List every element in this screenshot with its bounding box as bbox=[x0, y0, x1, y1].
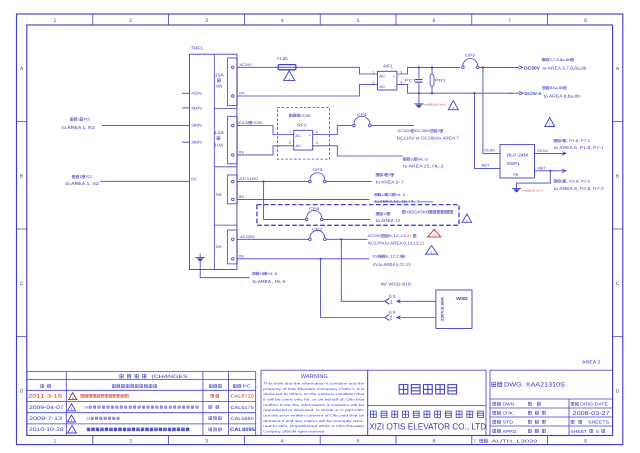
node PR1 top bbox=[431, 66, 433, 68]
wire DC0V rail bbox=[419, 92, 520, 94]
svg-text:DC110V: DC110V bbox=[237, 121, 249, 125]
svg-text:to AREA 1, S2: to AREA 1, S2 bbox=[65, 181, 99, 186]
svg-text:CP5: CP5 bbox=[465, 54, 475, 58]
svg-text:CP3: CP3 bbox=[312, 168, 322, 172]
svg-text:E3: E3 bbox=[389, 294, 396, 298]
warning box bbox=[261, 370, 368, 435]
svg-text:, P2-8, P7-2: , P2-8, P7-2 bbox=[567, 179, 590, 183]
connector CP2 bbox=[309, 238, 312, 241]
terminal DC110V/DC28V bbox=[232, 124, 235, 127]
warning triangle 4 bbox=[426, 246, 438, 255]
node DC30V tap (red) bbox=[482, 66, 484, 68]
svg-text:8: 8 bbox=[584, 18, 587, 24]
svg-text:21: 21 bbox=[420, 241, 425, 246]
svg-text:DWG. XAA21310S: DWG. XAA21310S bbox=[504, 382, 565, 389]
svg-text:7: 7 bbox=[389, 173, 391, 177]
wire after CP2 bbox=[326, 238, 367, 240]
svg-text:2: 2 bbox=[373, 80, 375, 84]
wire RF2 pin4 out bbox=[313, 146, 403, 156]
svg-text:1: 1 bbox=[54, 18, 57, 24]
svg-text:DWN.: DWN. bbox=[503, 402, 516, 407]
transformer chassis ground bbox=[199, 253, 201, 257]
changes row4 name 朱建根 bbox=[209, 428, 222, 431]
changes table title 更改记录 CHANGES bbox=[120, 374, 146, 378]
svg-text:1: 1 bbox=[390, 299, 393, 305]
svg-text:2010-10-28: 2010-10-28 bbox=[29, 427, 64, 433]
device WSD box bbox=[436, 290, 472, 329]
svg-text:to AREA 12, 15, HL-3: to AREA 12, 15, HL-3 bbox=[375, 200, 419, 204]
svg-text:3: 3 bbox=[205, 18, 208, 24]
label 电源12、15线 HL-3 bbox=[375, 193, 381, 196]
dwg row 日期 ORIG.DATE bbox=[571, 402, 578, 405]
svg-text:DC110V or DC28V,to AREA 7: DC110V or DC28V,to AREA 7 bbox=[397, 135, 460, 140]
svg-text:F1,8A: F1,8A bbox=[277, 56, 288, 61]
wire DC30V rail after CP5 bbox=[479, 66, 519, 68]
svg-text:7: 7 bbox=[473, 439, 476, 444]
svg-text:to AREA 6, P2-8, P7-2: to AREA 6, P2-8, P7-2 bbox=[554, 186, 605, 191]
terminal AC110V bbox=[232, 180, 235, 183]
svg-text:to AREA 6, P1-8, P7-1: to AREA 6, P1-8, P7-1 bbox=[554, 145, 605, 150]
connector CP5 bbox=[462, 66, 465, 69]
svg-text:E3: E3 bbox=[389, 311, 396, 315]
svg-text:2: 2 bbox=[390, 316, 393, 322]
secondary winding box W2 bbox=[228, 116, 238, 164]
svg-text:WARNING: WARNING bbox=[301, 374, 328, 380]
svg-text:to AREA 1, R2: to AREA 1, R2 bbox=[62, 125, 95, 130]
warning triangle above SWP1 bbox=[545, 118, 555, 127]
node PC1 top bbox=[418, 66, 420, 68]
label 电源8,8a,8b线 bbox=[543, 86, 549, 89]
wire WSD to E3-2 bbox=[400, 317, 436, 319]
transformer TRF1 body bbox=[190, 54, 237, 269]
wire DC110V to RF2 pin1 bbox=[237, 126, 294, 135]
terminal 0V W3 bbox=[232, 198, 235, 201]
svg-text:15: 15 bbox=[260, 272, 264, 276]
svg-text:0V: 0V bbox=[239, 92, 245, 96]
svg-text:6: 6 bbox=[433, 18, 436, 24]
label 仅用于DC28V bbox=[289, 114, 299, 117]
svg-text:CAL5175: CAL5175 bbox=[231, 405, 255, 410]
svg-text:8,8a,8b: 8,8a,8b bbox=[550, 86, 564, 90]
connector CP3 bbox=[309, 180, 312, 183]
svg-text:APPD.: APPD. bbox=[503, 429, 518, 434]
terminal AC220V bbox=[232, 238, 235, 241]
dashed box XRDS/AT400 bbox=[257, 205, 459, 226]
label 电源6线, P1-8, P7-1 bbox=[554, 139, 560, 142]
svg-text:delivered to others on the exp: delivered to others on the express condi… bbox=[263, 392, 364, 396]
primary tap stub 400V bbox=[182, 107, 190, 109]
svg-text:1: 1 bbox=[80, 175, 82, 179]
terminal 0V W1 bbox=[232, 95, 235, 98]
svg-text:2009-04-07: 2009-04-07 bbox=[29, 405, 64, 411]
node PC1 bottom bbox=[418, 92, 420, 94]
svg-text:220V,0.66A: 220V,0.66A bbox=[441, 297, 445, 321]
svg-text:RET: RET bbox=[482, 164, 490, 168]
title box bbox=[368, 370, 486, 435]
svg-text:C: C bbox=[616, 281, 620, 287]
changes header 更改PC bbox=[233, 385, 241, 388]
svg-text:4: 4 bbox=[281, 439, 284, 445]
wire after CP8 bbox=[323, 218, 370, 220]
label 电源15线 HL-5 bbox=[253, 272, 259, 275]
svg-text:AC: AC bbox=[296, 144, 302, 148]
svg-text:5: 5 bbox=[357, 18, 360, 24]
svg-text:3,7,8,8a,8b: 3,7,8,8a,8b bbox=[549, 58, 570, 62]
fuse F1 8A bbox=[278, 65, 296, 70]
changes row1 name 张日 bbox=[211, 394, 219, 397]
wire AC110V to CP3 bbox=[237, 181, 308, 183]
wire S2 to 0V tap bbox=[100, 180, 189, 182]
svg-text:to AREA 12: to AREA 12 bbox=[376, 218, 401, 223]
wire WSD to E3-1 bbox=[400, 300, 436, 302]
wire 0V W4 out bbox=[237, 258, 369, 260]
svg-text:to AREA 15, HL-3: to AREA 15, HL-3 bbox=[403, 164, 444, 169]
warning triangle XRDS bbox=[462, 214, 471, 222]
dashed box 仅用于DC28V bbox=[278, 108, 330, 160]
svg-text:TRF1: TRF1 bbox=[191, 45, 204, 50]
svg-text:STD.: STD. bbox=[503, 420, 515, 425]
svg-text:CP8: CP8 bbox=[309, 207, 319, 211]
wire transformer ground to HL-5 bbox=[200, 262, 249, 278]
svg-text:12: 12 bbox=[382, 193, 386, 197]
svg-text:(CHANGES: (CHANGES bbox=[152, 374, 188, 380]
svg-text:6: 6 bbox=[433, 439, 436, 445]
wire RF1 pin3 to DC30V rail bbox=[397, 67, 460, 74]
dwg row 校对 CHK. 曹晓东 bbox=[493, 411, 501, 414]
svg-text:SHEETS: SHEETS bbox=[588, 420, 609, 425]
svg-text:21: 21 bbox=[407, 234, 411, 238]
svg-text:RF1: RF1 bbox=[383, 63, 393, 68]
node 0V junction bbox=[320, 258, 322, 260]
wire after CP3 bbox=[326, 181, 372, 183]
svg-text:DC28V: DC28V bbox=[252, 121, 262, 125]
label 电源3,7,8,8a,8b线 bbox=[542, 58, 548, 61]
svg-text:PC: PC bbox=[243, 384, 251, 389]
svg-text:8: 8 bbox=[584, 439, 587, 445]
svg-text:reproduced or disclosed, in wh: reproduced or disclosed, in whole or in … bbox=[263, 408, 364, 412]
svg-text:15: 15 bbox=[389, 193, 393, 197]
wire 0V W1 to RF1 bbox=[237, 85, 377, 96]
svg-text:380V: 380V bbox=[191, 123, 202, 128]
terminal AC24V bbox=[232, 66, 235, 69]
svg-text:AC: AC bbox=[379, 85, 385, 89]
company name 西子奥的斯电梯有限公司 bbox=[370, 411, 483, 417]
wire DC30V to SWP1 input bbox=[483, 67, 500, 153]
svg-text:DC30V: DC30V bbox=[484, 149, 495, 153]
svg-text:RET: RET bbox=[538, 166, 546, 170]
svg-text:1: 1 bbox=[289, 130, 291, 134]
svg-text:DC110V: DC110V bbox=[398, 129, 412, 133]
svg-text:out the prior written consent: out the prior written consent of Otis,an… bbox=[263, 413, 364, 417]
resistor PR1 bbox=[431, 67, 433, 74]
dwg block bbox=[490, 370, 613, 435]
svg-text:3: 3 bbox=[383, 173, 385, 177]
svg-text:2011-3-16: 2011-3-16 bbox=[28, 394, 62, 400]
svg-text:PE: PE bbox=[514, 173, 520, 177]
changes row1 revision triangle 1 bbox=[69, 393, 77, 400]
PE ground symbol bbox=[512, 187, 521, 189]
ground below DC0V rail bbox=[418, 93, 420, 104]
label 电源15线 HL-3 bbox=[403, 158, 409, 161]
node AC220V junction bbox=[340, 238, 342, 240]
svg-text:CAL5660: CAL5660 bbox=[231, 416, 255, 421]
svg-text:SWP1: SWP1 bbox=[507, 161, 521, 166]
terminal 0V W2 bbox=[232, 154, 235, 157]
svg-text:4: 4 bbox=[316, 141, 318, 145]
svg-text:HL-3: HL-3 bbox=[396, 193, 405, 197]
svg-text:AC: AC bbox=[296, 134, 302, 138]
svg-text:CHK.: CHK. bbox=[503, 411, 515, 416]
rectifier RF1 bbox=[378, 71, 397, 90]
label 带XRDS/AT400门机时使用 bbox=[402, 210, 405, 213]
svg-text:to AREA 15, HL-4: to AREA 15, HL-4 bbox=[425, 104, 446, 107]
label 电源1线 R2 bbox=[70, 118, 77, 121]
dwg number 图号DWG. XAA21310S bbox=[492, 382, 502, 386]
wire RF2 pin3 to CP4 bbox=[313, 126, 353, 135]
wire DC0V to SWP1 RET input bbox=[475, 93, 501, 168]
svg-text:D: D bbox=[20, 389, 24, 395]
svg-text:Company 1998.All rights reserv: Company 1998.All rights reserved. bbox=[263, 429, 325, 433]
svg-text:CAL8710: CAL8710 bbox=[231, 394, 255, 399]
secondary winding box W3 bbox=[228, 175, 238, 204]
svg-text:400V: 400V bbox=[191, 105, 202, 110]
svg-text:DC28V: DC28V bbox=[301, 114, 311, 118]
svg-text:HLP-24M: HLP-24M bbox=[507, 152, 529, 157]
svg-text:DC24V: DC24V bbox=[537, 149, 548, 153]
svg-text:2008-03-27: 2008-03-27 bbox=[573, 411, 610, 417]
svg-text:AC110V: AC110V bbox=[239, 177, 258, 181]
svg-text:S2: S2 bbox=[86, 175, 92, 179]
wire tap down to CP8 bbox=[264, 182, 306, 220]
wire RET to PE ground bbox=[517, 171, 551, 189]
svg-text:1: 1 bbox=[54, 439, 57, 445]
dwg row 标审 STD. 李向军 bbox=[493, 420, 501, 423]
svg-text:2009-7-13: 2009-7-13 bbox=[29, 416, 62, 422]
svg-text:RF2: RF2 bbox=[297, 123, 307, 128]
svg-text:CAL8095: CAL8095 bbox=[230, 427, 255, 433]
svg-text:, P1-8, P7-1: , P1-8, P7-1 bbox=[567, 139, 590, 143]
svg-text:AC220V: AC220V bbox=[240, 235, 256, 239]
svg-text:This work and the information: This work and the information it contain… bbox=[263, 382, 364, 386]
svg-text:AC220V: AC220V bbox=[368, 234, 383, 238]
svg-text:6: 6 bbox=[561, 139, 563, 143]
wire RET output bbox=[535, 170, 566, 172]
svg-text:WSD: WSD bbox=[456, 296, 468, 301]
changes row2 name 何斌 bbox=[209, 405, 219, 408]
svg-text:HL-3: HL-3 bbox=[418, 157, 428, 161]
svg-text:0V: 0V bbox=[239, 150, 245, 154]
svg-text:DC28V,: DC28V, bbox=[415, 129, 431, 133]
svg-text:AUTH. L3039: AUTH. L3039 bbox=[492, 439, 539, 444]
svg-text:demand it and any copies will: demand it and any copies will be promptl… bbox=[263, 419, 364, 423]
svg-text:0V: 0V bbox=[373, 255, 380, 259]
svg-text:0V,to AREA 6,12,13: 0V,to AREA 6,12,13 bbox=[373, 262, 411, 267]
svg-text:4.5A: 4.5A bbox=[214, 130, 225, 135]
dwg row 共 页 SHEETS bbox=[571, 420, 574, 423]
label 电源3、7线 bbox=[376, 173, 382, 176]
node PR1 bottom bbox=[431, 92, 433, 94]
node DC0V small bbox=[510, 92, 512, 94]
svg-text:AC24V: AC24V bbox=[240, 63, 253, 67]
svg-text:C: C bbox=[20, 281, 24, 287]
wire after CP4 bbox=[371, 125, 414, 127]
wire AC220V to CP2 bbox=[237, 238, 308, 240]
svg-text:AC: AC bbox=[379, 75, 385, 79]
svg-text:to AREA , HL-5: to AREA , HL-5 bbox=[253, 279, 287, 284]
changes row2 revision triangle 2 bbox=[67, 404, 75, 411]
svg-text:to AREA 3- 7: to AREA 3- 7 bbox=[376, 180, 405, 185]
svg-text:5: 5 bbox=[357, 439, 360, 445]
primary tap stub 415V bbox=[182, 92, 190, 94]
svg-text:5A: 5A bbox=[216, 192, 222, 197]
svg-text:10A: 10A bbox=[214, 142, 223, 147]
svg-text:XIZI OTIS ELEVATOR CO., LTD: XIZI OTIS ELEVATOR CO., LTD bbox=[369, 422, 486, 432]
svg-text:0V: 0V bbox=[239, 254, 245, 258]
svg-text:to AREA 15, HL-4: to AREA 15, HL-4 bbox=[522, 190, 542, 193]
svg-text:ned to Otis. Unpublished W: ned to Otis. Unpublished Work © Otis Ele… bbox=[263, 424, 364, 428]
svg-text:6,12,13,: 6,12,13, bbox=[389, 234, 407, 238]
svg-text:4: 4 bbox=[400, 80, 402, 84]
changes row4 revision triangle 4 bbox=[68, 425, 77, 433]
changes header 日期 bbox=[41, 385, 51, 388]
svg-text:R2: R2 bbox=[84, 118, 90, 122]
wire 0V down to E3-2 bbox=[321, 259, 385, 318]
svg-text:HL-5: HL-5 bbox=[267, 272, 277, 276]
connector CP4 bbox=[353, 124, 356, 127]
svg-text:CP2: CP2 bbox=[312, 228, 322, 232]
wire RF1 pin4 to DC0V rail bbox=[397, 85, 419, 94]
svg-text:1: 1 bbox=[373, 71, 375, 75]
wire AC220V down to E3-1 bbox=[341, 239, 384, 301]
primary tap stub 360V bbox=[182, 141, 190, 143]
svg-text:2: 2 bbox=[129, 439, 132, 445]
svg-text:XRDS/AT400: XRDS/AT400 bbox=[406, 209, 429, 214]
warning triangle 5 (red) bbox=[428, 229, 441, 237]
wire R2 to 380V tap bbox=[102, 125, 189, 127]
svg-text:1: 1 bbox=[78, 118, 80, 122]
node DC0V tap (red) bbox=[473, 92, 475, 94]
svg-text:6,12,13: 6,12,13 bbox=[386, 255, 402, 259]
dwg row 制图 DWN. 何 斌 bbox=[493, 402, 501, 405]
svg-text:7: 7 bbox=[508, 18, 511, 24]
svg-text:2: 2 bbox=[129, 18, 132, 24]
wire 0V W3 out bbox=[237, 198, 369, 200]
svg-text:it will be used only for, or o: it will be used only for, or on behalf o… bbox=[263, 397, 364, 401]
svg-text:3: 3 bbox=[316, 130, 318, 134]
svg-text:9A: 9A bbox=[216, 84, 222, 89]
svg-text:PC1: PC1 bbox=[405, 78, 416, 82]
svg-text:AREA 2: AREA 2 bbox=[582, 360, 600, 365]
svg-text:ORIG.DATE: ORIG.DATE bbox=[580, 402, 608, 407]
label 电源12线 bbox=[376, 212, 382, 215]
svg-text:CP4: CP4 bbox=[357, 113, 367, 117]
svg-text:6: 6 bbox=[561, 179, 563, 183]
changes row4 text 定义2A、将220V+DC24V+F供电线路改为30V+DC24V+F供电线路 (bold) bbox=[87, 428, 189, 431]
changes table grid bbox=[27, 372, 256, 436]
warning triangle below fuse bbox=[284, 71, 295, 81]
svg-text:2A: 2A bbox=[216, 244, 222, 249]
svg-text:DC0V-A: DC0V-A bbox=[525, 91, 542, 96]
svg-text:0V: 0V bbox=[191, 176, 197, 181]
label 电源6线, P2-8, P7-2 bbox=[554, 180, 560, 183]
wire 0V W2 to RF2 pin2 bbox=[237, 146, 294, 155]
svg-text:3: 3 bbox=[205, 439, 208, 445]
wire DC24V output bbox=[535, 152, 566, 154]
svg-text:SHEET: SHEET bbox=[570, 429, 587, 434]
arrow DC30V out bbox=[519, 66, 523, 70]
svg-text:D: D bbox=[616, 389, 620, 395]
node AC110V tap bbox=[263, 181, 265, 183]
capacitor PC1 bbox=[418, 67, 420, 78]
label 电源1线 S2 bbox=[72, 175, 79, 178]
svg-text:415V: 415V bbox=[191, 91, 202, 96]
svg-text:DC30V: DC30V bbox=[524, 65, 540, 70]
svg-text:2: 2 bbox=[289, 141, 291, 145]
svg-text:to AREA 8,8a,8b: to AREA 8,8a,8b bbox=[544, 93, 581, 98]
svg-text:7: 7 bbox=[438, 129, 440, 133]
changes header 更改(更改标记及内容) bbox=[112, 385, 156, 388]
changes row3 name 陈维祥 bbox=[209, 417, 222, 420]
drawing title 变压器接线 bbox=[399, 385, 457, 394]
secondary winding box W1 bbox=[228, 58, 238, 106]
svg-text:15: 15 bbox=[410, 157, 414, 161]
svg-text:to AREA 3,7,8,8a,8b: to AREA 3,7,8,8a,8b bbox=[543, 66, 588, 71]
power supply SWP1 HLP-24M bbox=[500, 145, 535, 178]
connector CP8 bbox=[305, 218, 308, 221]
svg-text:neither it nor the information: neither it nor the information it contai… bbox=[263, 403, 364, 407]
terminal 0V W4 bbox=[232, 258, 235, 261]
changes row3 revision triangle 3 bbox=[67, 415, 75, 422]
svg-text:360V: 360V bbox=[191, 140, 202, 145]
svg-text:W/ WSD-818: W/ WSD-818 bbox=[381, 282, 412, 287]
svg-text:PR1: PR1 bbox=[435, 78, 446, 82]
svg-text:15A: 15A bbox=[215, 72, 224, 77]
dwg row 批准 APPD. 刘忠斌 bbox=[493, 429, 501, 432]
warning triangle near ground bbox=[448, 101, 458, 110]
svg-text:4: 4 bbox=[281, 18, 284, 24]
svg-text:12: 12 bbox=[383, 212, 387, 216]
svg-text:AC220V,to AREA 6,12,13,: AC220V,to AREA 6,12,13, bbox=[368, 241, 420, 246]
secondary winding box W4 bbox=[228, 230, 238, 264]
changes header 更改人 bbox=[209, 385, 221, 388]
svg-text:0V: 0V bbox=[239, 195, 245, 199]
svg-text:property of Otis Elevator Comp: property of Otis Elevator Company (“Otis… bbox=[263, 387, 365, 391]
arrow DC0V-A out bbox=[519, 91, 523, 95]
svg-text:+: + bbox=[309, 134, 311, 138]
wire AC24V bbox=[237, 67, 377, 74]
changes row1 text 增加用于上下高峰服务的注 bbox=[81, 394, 129, 397]
